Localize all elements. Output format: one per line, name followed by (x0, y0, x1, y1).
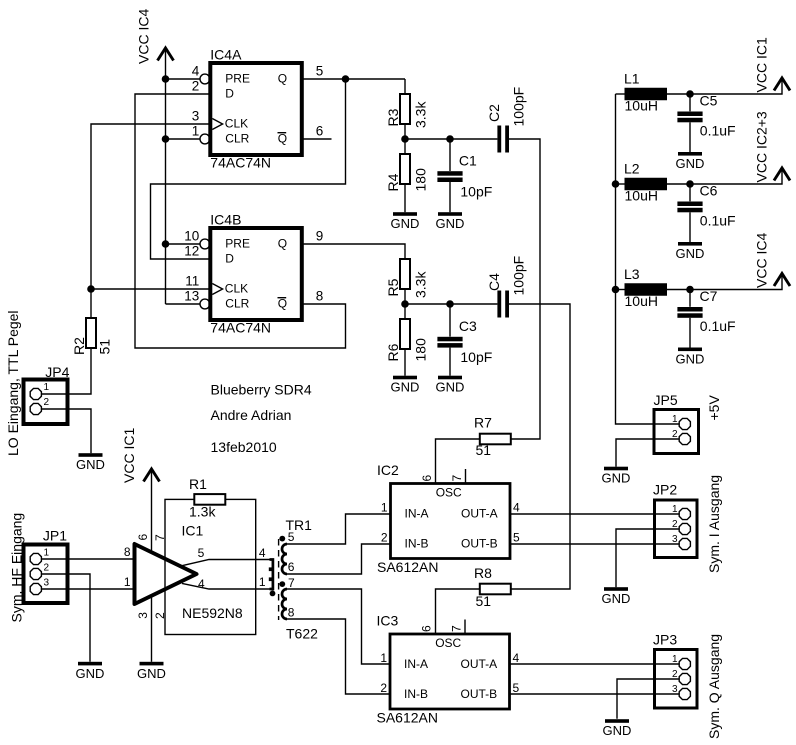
svg-text:13feb2010: 13feb2010 (211, 439, 277, 455)
VCC arrow VCC IC4 (774, 274, 790, 287)
capacitor C6 plates (677, 202, 702, 207)
JP5 pad 1 (679, 418, 690, 429)
svg-text:CLK: CLK (225, 282, 248, 296)
svg-text:1: 1 (380, 651, 387, 665)
svg-text:OUT-A: OUT-A (461, 506, 498, 520)
JP1 pad 1 (30, 553, 41, 564)
svg-text:3.3k: 3.3k (413, 101, 429, 128)
JP3 pad 1 (679, 658, 690, 669)
svg-text:7: 7 (450, 625, 464, 632)
junction VCC / pin10 (162, 240, 170, 248)
svg-text:IN-A: IN-A (405, 506, 429, 520)
svg-text:10uH: 10uH (625, 293, 658, 309)
wire TR1 pin 7 to IC3 IN-A (287, 589, 390, 664)
connector JP4 box (24, 380, 68, 425)
JP2 pad 2 (679, 523, 690, 534)
svg-text:PRE: PRE (225, 237, 250, 251)
svg-text:6: 6 (136, 534, 150, 541)
svg-text:51: 51 (476, 593, 492, 609)
svg-text:Q: Q (278, 72, 287, 86)
svg-text:OUT-A: OUT-A (461, 657, 498, 671)
svg-text:13: 13 (184, 289, 199, 304)
IC4B CLK edge marker (212, 284, 222, 295)
svg-text:1: 1 (672, 504, 678, 515)
resistor R8 body (480, 584, 511, 595)
svg-text:2: 2 (381, 531, 388, 545)
capacitor C7 plates (677, 307, 702, 312)
wire C2 to R7 (509, 139, 540, 439)
svg-text:5: 5 (288, 530, 295, 544)
svg-text:GND: GND (602, 591, 631, 606)
svg-text:5: 5 (513, 681, 520, 695)
VCC IC1 arrow (144, 469, 160, 482)
wire JP1 pin 1 to IC1 pin 8 (42, 558, 135, 560)
connector JP5 box (654, 410, 699, 454)
junction C3 tap (446, 300, 454, 308)
wire JP1 pin 3 to IC1 pin 1 (42, 588, 135, 590)
svg-text:GND: GND (676, 352, 705, 367)
svg-text:OSC: OSC (436, 486, 462, 500)
wire JP1 pin 2 to ground (42, 574, 90, 662)
svg-text:Q: Q (278, 297, 287, 311)
ground below JP2 (604, 587, 628, 591)
JP3 pad 2 (679, 673, 690, 684)
svg-text:3: 3 (672, 684, 678, 695)
svg-text:VCC IC2+3: VCC IC2+3 (754, 111, 770, 182)
ground below JP5 (604, 467, 628, 471)
svg-text:1: 1 (44, 382, 50, 393)
wire IC2 OUT-A to JP2 pin 1 (510, 513, 679, 515)
wire IC4B Q-bar pin 8 to IC4A D pin 2 (135, 94, 346, 348)
JP4 pad 2 (30, 403, 41, 414)
svg-text:SA612AN: SA612AN (377, 710, 438, 726)
connector JP3 box (655, 650, 698, 709)
junction Q5 node (342, 75, 350, 83)
svg-text:IC2: IC2 (377, 462, 399, 478)
svg-text:C6: C6 (700, 183, 718, 199)
svg-text:1: 1 (672, 414, 678, 425)
svg-text:8: 8 (288, 606, 295, 620)
svg-text:IC1: IC1 (182, 523, 204, 539)
svg-text:GND: GND (391, 216, 420, 231)
svg-text:VCC IC4: VCC IC4 (136, 9, 152, 64)
svg-text:74AC74N: 74AC74N (210, 155, 271, 171)
svg-text:R8: R8 (474, 565, 492, 581)
TR1 polarity dot pin7 (279, 581, 285, 587)
wire IC2 OUT-B to JP2 pin 3 (510, 543, 679, 545)
svg-text:51: 51 (96, 339, 112, 355)
svg-text:T622: T622 (286, 626, 318, 642)
svg-text:100pF: 100pF (510, 87, 526, 127)
svg-text:NE592N8: NE592N8 (182, 605, 243, 621)
svg-text:4: 4 (192, 64, 200, 79)
IC4A CLR inversion bubble pin 1 (200, 134, 210, 144)
stub IC4A Q-bar pin 6 (302, 138, 332, 140)
svg-text:180: 180 (413, 338, 429, 362)
svg-text:GND: GND (602, 471, 631, 486)
svg-text:6: 6 (420, 625, 434, 632)
svg-text:LO Eingang, TTL Pegel: LO Eingang, TTL Pegel (5, 310, 21, 456)
mixer IC3 SA612AN box (390, 634, 510, 709)
D flip-flop IC4A 74AC74N (210, 63, 301, 155)
junction R5/R6 (401, 300, 409, 308)
svg-text:PRE: PRE (225, 72, 250, 86)
wire L2 row (616, 183, 625, 185)
svg-text:CLK: CLK (225, 117, 248, 131)
ground below JP3 (605, 719, 629, 723)
svg-text:R1: R1 (189, 476, 207, 492)
svg-text:GND: GND (436, 380, 465, 395)
svg-text:10pF: 10pF (460, 349, 492, 365)
wire JP4 pin 2 to ground (42, 409, 91, 453)
junction CLK net (87, 285, 95, 293)
inductor L3 body (625, 283, 668, 296)
JP3 pad 3 (679, 688, 690, 699)
svg-text:6: 6 (316, 124, 324, 139)
svg-text:4: 4 (513, 501, 520, 515)
JP2 pad 1 (679, 508, 690, 519)
svg-text:1: 1 (381, 501, 388, 515)
wire R2 to JP4 pin 1 (42, 348, 91, 394)
svg-text:1: 1 (672, 654, 678, 665)
wire VCC to IC4B PRE pin 10 (166, 243, 200, 245)
svg-text:VCC IC1: VCC IC1 (754, 37, 770, 92)
ground symbol below JP4 (79, 453, 103, 457)
svg-text:12: 12 (184, 244, 199, 259)
svg-text:Sym. I Ausgang: Sym. I Ausgang (706, 475, 722, 573)
ground below C5 (678, 152, 702, 156)
wire JP3 pin 2 to ground (617, 679, 679, 719)
svg-text:L2: L2 (624, 161, 640, 177)
svg-text:0.1uF: 0.1uF (700, 123, 736, 139)
IC1 gain loop wire (165, 499, 256, 634)
svg-text:1: 1 (124, 575, 131, 589)
svg-text:CLR: CLR (225, 132, 249, 146)
IC2 pin 7 stub (465, 469, 467, 484)
svg-text:R6: R6 (385, 343, 401, 361)
svg-text:L1: L1 (624, 71, 640, 87)
svg-text:5: 5 (513, 531, 520, 545)
svg-text:Sym. HF Eingang: Sym. HF Eingang (9, 513, 25, 623)
svg-text:OUT-B: OUT-B (461, 536, 498, 550)
capacitor C1 plates (437, 171, 462, 176)
capacitor C3 plates (437, 337, 462, 342)
svg-text:2: 2 (192, 79, 200, 94)
svg-text:C7: C7 (700, 288, 718, 304)
svg-text:5: 5 (198, 546, 205, 560)
svg-text:7: 7 (450, 475, 464, 482)
JP4 pad 1 (30, 388, 41, 399)
wire VCC to IC4A PRE pin 4 (166, 78, 200, 80)
svg-text:VCC IC4: VCC IC4 (754, 233, 770, 288)
TR1 core dashed line (278, 539, 280, 620)
svg-text:3: 3 (192, 109, 200, 124)
junction C7 tap (686, 286, 694, 294)
svg-text:4: 4 (198, 577, 205, 591)
ground below JP1 (78, 662, 102, 666)
svg-text:11: 11 (185, 274, 199, 289)
svg-text:C1: C1 (459, 153, 477, 169)
wire TR1 pin 8 to IC3 IN-B (287, 619, 390, 694)
JP2 pad 3 (679, 538, 690, 549)
svg-text:IC4A: IC4A (210, 47, 242, 63)
svg-text:SA612AN: SA612AN (377, 559, 438, 575)
svg-text:3: 3 (672, 534, 678, 545)
svg-text:Blueberry SDR4: Blueberry SDR4 (211, 382, 312, 398)
svg-text:100pF: 100pF (510, 256, 526, 296)
capacitor C4 plates (497, 291, 501, 318)
ground below C3 (438, 376, 462, 380)
wire IC4B Q pin 9 to R5 (302, 244, 405, 259)
svg-text:1: 1 (192, 124, 200, 139)
svg-text:5: 5 (316, 64, 324, 79)
svg-text:GND: GND (676, 156, 705, 171)
svg-text:8: 8 (316, 289, 324, 304)
connector JP1 box (24, 545, 68, 604)
svg-text:D: D (225, 87, 234, 101)
IC1 pin 3 wire to ground (151, 596, 153, 662)
wire L1 row (616, 93, 625, 95)
IC3 pin 7 stub (464, 620, 466, 635)
svg-text:1.3k: 1.3k (189, 504, 216, 520)
wire Q-divider node row (405, 303, 497, 305)
IC4B CLR inversion bubble pin 13 (200, 299, 210, 309)
svg-text:10: 10 (184, 229, 199, 244)
IC1 pin 6 wire to VCC (151, 469, 153, 553)
IC4A PRE inversion bubble pin 4 (200, 74, 210, 84)
svg-text:R2: R2 (71, 337, 87, 355)
TR1 primary winding bracket (270, 560, 273, 590)
resistor R1 body (194, 494, 225, 505)
junction L2 feed (612, 180, 620, 188)
svg-text:GND: GND (76, 666, 105, 681)
JP1 pad 2 (30, 568, 41, 579)
svg-text:Q: Q (278, 132, 287, 146)
mixer IC2 SA612AN box (391, 484, 511, 559)
svg-text:3: 3 (136, 612, 150, 619)
svg-text:10uH: 10uH (625, 188, 658, 204)
svg-text:74AC74N: 74AC74N (210, 320, 271, 336)
junction VCC / pin4 (162, 75, 170, 83)
svg-text:IN-B: IN-B (405, 536, 429, 550)
TR1 secondary winding 1 (282, 544, 287, 574)
wire VCC to IC4A CLR pin 1 (166, 138, 200, 140)
svg-text:R5: R5 (385, 278, 401, 296)
IC1 output pin 5 wire (182, 560, 270, 566)
svg-text:1: 1 (259, 575, 266, 589)
svg-text:C3: C3 (459, 318, 477, 334)
svg-text:Q: Q (278, 237, 287, 251)
JP5 pad 2 (679, 433, 690, 444)
svg-text:JP2: JP2 (653, 482, 677, 498)
svg-text:R7: R7 (474, 415, 492, 431)
junction L3 feed (612, 286, 620, 294)
svg-text:GND: GND (391, 380, 420, 395)
inductor L2 body (625, 178, 668, 191)
svg-text:IN-B: IN-B (404, 687, 428, 701)
resistor R5 body (400, 259, 410, 289)
svg-text:JP5: JP5 (654, 392, 678, 408)
ground below C1 (438, 212, 462, 216)
ground below C6 (678, 242, 702, 246)
VCC arrow VCC IC2+3 (774, 168, 790, 181)
svg-text:GND: GND (603, 723, 632, 738)
capacitor C5 plates (677, 112, 702, 117)
svg-text:3.3k: 3.3k (413, 271, 429, 298)
svg-text:180: 180 (413, 168, 429, 192)
junction R3/R4 (401, 135, 409, 143)
connector JP2 box (655, 500, 698, 558)
svg-text:IC3: IC3 (377, 613, 399, 629)
resistor R6 body (400, 319, 410, 349)
svg-text:10uH: 10uH (625, 98, 658, 114)
capacitor C2 plates (497, 126, 501, 153)
wire I-divider node row (405, 138, 497, 140)
wire IC3 OUT-A to JP3 pin 1 (510, 663, 679, 665)
wire R7 to IC2 OSC pin 6 (436, 439, 480, 484)
wire TR1 pin 6 to IC2 IN-B (287, 544, 391, 574)
svg-text:8: 8 (124, 545, 131, 559)
svg-text:GND: GND (76, 457, 105, 472)
svg-text:R4: R4 (385, 173, 401, 191)
svg-text:JP3: JP3 (653, 632, 677, 648)
wire JP5 pin 2 to ground (616, 439, 679, 467)
IC4A CLK edge marker (212, 119, 222, 130)
svg-text:R3: R3 (385, 108, 401, 126)
JP1 pad 3 (30, 583, 41, 594)
IC1 output pin 4 wire (182, 583, 270, 589)
svg-text:4: 4 (513, 651, 520, 665)
wire C4 to R8 (509, 304, 570, 589)
svg-text:9: 9 (316, 229, 324, 244)
svg-text:2: 2 (44, 563, 50, 574)
op-amp IC1 triangle (135, 544, 197, 604)
svg-text:CLR: CLR (225, 297, 249, 311)
ground below R6 (393, 376, 417, 380)
wire VCC to IC4B CLR pin 13 (166, 303, 200, 305)
svg-text:0.1uF: 0.1uF (700, 213, 736, 229)
junction C5 tap (686, 90, 694, 98)
svg-text:C2: C2 (486, 104, 502, 122)
svg-text:3: 3 (44, 578, 50, 589)
svg-text:1: 1 (44, 548, 50, 559)
resistor R4 body (400, 154, 410, 184)
D flip-flop IC4B 74AC74N (210, 228, 301, 320)
svg-text:6: 6 (420, 475, 434, 482)
svg-text:D: D (225, 252, 234, 266)
svg-text:L3: L3 (624, 266, 640, 282)
svg-text:0.1uF: 0.1uF (700, 318, 736, 334)
svg-text:+5V: +5V (706, 395, 722, 421)
svg-text:2: 2 (44, 397, 50, 408)
wire IC4A Q pin 5 to R3 and IC4B D pin 12 (302, 78, 405, 80)
svg-text:OUT-B: OUT-B (461, 687, 498, 701)
svg-text:IN-A: IN-A (404, 657, 428, 671)
wire LO clock net: R2 top to both CLK pins (91, 124, 210, 318)
wire L3 row (616, 289, 625, 291)
svg-text:Andre Adrian: Andre Adrian (211, 407, 292, 423)
TR1 polarity dot primary (270, 591, 276, 597)
ground below C7 (678, 348, 702, 352)
inductor L1 body (625, 88, 668, 101)
svg-text:C5: C5 (700, 93, 718, 109)
svg-text:7: 7 (288, 576, 295, 590)
VCC IC4 power arrow (top left) (158, 48, 174, 61)
junction C1 tap (446, 135, 454, 143)
junction VCC / pin1 (162, 135, 170, 143)
IC4B PRE inversion bubble pin 10 (200, 239, 210, 249)
VCC arrow VCC IC1 (774, 78, 790, 91)
ground below IC1 (140, 662, 164, 666)
svg-text:GND: GND (436, 216, 465, 231)
resistor R7 body (480, 434, 511, 445)
svg-text:C4: C4 (486, 273, 502, 291)
svg-text:4: 4 (259, 546, 266, 560)
wire TR1 pin 5 to IC2 IN-A (287, 514, 391, 544)
svg-text:JP4: JP4 (45, 364, 69, 380)
wire IC3 OUT-B to JP3 pin 3 (510, 693, 679, 695)
TR1 polarity dot pin5 (279, 536, 285, 542)
svg-text:GND: GND (137, 666, 166, 681)
svg-text:IC4B: IC4B (210, 212, 241, 228)
svg-text:JP1: JP1 (43, 528, 67, 544)
junction C6 tap (686, 180, 694, 188)
ground below R4 (393, 212, 417, 216)
svg-text:2: 2 (380, 681, 387, 695)
wire R8 to IC3 OSC pin 6 (436, 589, 480, 634)
wire JP2 pin 2 to ground (616, 529, 679, 587)
svg-text:51: 51 (476, 442, 492, 458)
svg-text:10pF: 10pF (460, 183, 492, 199)
svg-text:OSC: OSC (435, 636, 461, 650)
svg-text:Sym. Q Ausgang: Sym. Q Ausgang (706, 634, 722, 739)
svg-text:VCC IC1: VCC IC1 (121, 428, 137, 483)
TR1 secondary winding 2 (282, 589, 287, 619)
svg-text:GND: GND (676, 246, 705, 261)
resistor R3 body (400, 94, 410, 124)
resistor R2 body (86, 318, 96, 348)
wire +5V feed rail (616, 94, 653, 424)
svg-text:6: 6 (288, 560, 295, 574)
